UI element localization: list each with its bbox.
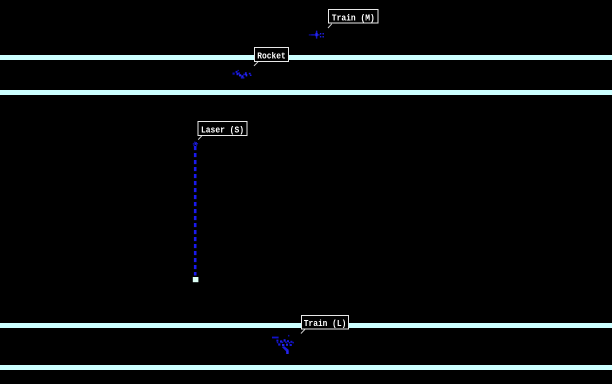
laser emitter (light square at bottom of beam) bbox=[193, 277, 199, 282]
label Rocket bbox=[255, 48, 289, 62]
label Train (M) bbox=[329, 10, 379, 24]
label Laser (S) leader line bbox=[198, 136, 202, 140]
train M sprite bbox=[309, 31, 324, 39]
laser beam (dotted blue line) bbox=[194, 146, 197, 276]
label Train (M) leader line bbox=[328, 24, 332, 28]
laser source star (node at top of beam) bbox=[193, 142, 198, 146]
train L sprite bbox=[272, 335, 294, 354]
label Train (L) leader line bbox=[301, 329, 305, 333]
label Train (L) bbox=[302, 316, 349, 330]
track 1 (top, Train M track) bbox=[0, 55, 612, 60]
svg-text:Train (L): Train (L) bbox=[304, 318, 347, 329]
track 3 (Train L track upper rail) bbox=[0, 323, 612, 328]
rocket sprite bbox=[233, 70, 252, 79]
label Rocket leader line bbox=[254, 62, 258, 66]
track 4 (bottom rail) bbox=[0, 365, 612, 370]
svg-text:Train (M): Train (M) bbox=[332, 12, 375, 23]
svg-text:Rocket: Rocket bbox=[257, 51, 286, 62]
label Laser (S) bbox=[198, 122, 247, 136]
track 2 (Rocket track) bbox=[0, 90, 612, 95]
svg-text:Laser (S): Laser (S) bbox=[201, 124, 244, 135]
